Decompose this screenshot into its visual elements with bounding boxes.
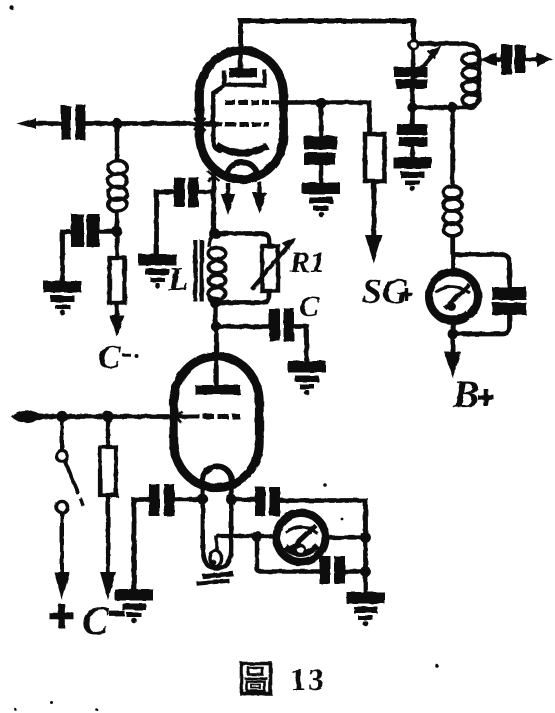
wire: coil L1 to junction — [115, 210, 119, 231]
resistor R1 — [262, 246, 278, 291]
node junction at shunt right — [360, 566, 371, 577]
switch top contact — [56, 450, 67, 461]
svg-text:SG: SG — [362, 271, 408, 311]
wire: cathode of V1 down — [211, 168, 216, 231]
wire: down to ground right — [363, 538, 368, 593]
wire: screen grid out to right — [271, 100, 371, 105]
tube V1 envelope — [200, 50, 284, 179]
lamp inner electrode — [215, 536, 219, 552]
wire + arrow to + — [60, 513, 64, 573]
wire: junction down into V2 — [214, 328, 219, 386]
capacitor: screen bypass — [319, 103, 324, 137]
arrow B+ — [450, 334, 455, 357]
screen grid dashes of V1 — [225, 100, 269, 105]
transformer core bars — [193, 240, 197, 302]
input arrow (antenna) — [17, 118, 37, 129]
ground bottom right — [347, 592, 385, 626]
X mark grid entry V2 — [171, 411, 183, 424]
node junction on screen wire — [316, 98, 327, 109]
svg-text:B: B — [452, 373, 479, 416]
node junction below meter — [448, 329, 459, 340]
filament arrow right of V1 — [257, 182, 261, 196]
caption 圖 13 — [242, 664, 271, 694]
wire: box top to R1 — [215, 234, 270, 248]
cathode arc of V1 — [217, 145, 268, 153]
capacitor: variable trimmer below node — [411, 49, 416, 67]
node junction left of meter2 — [252, 531, 263, 542]
antenna arrow right (out) — [526, 57, 542, 61]
wire: lamp electrode to meter — [217, 534, 254, 538]
coil L2 top right — [477, 50, 481, 101]
filament dome of V2 — [203, 466, 232, 481]
wire: capacitor bottom to junction — [453, 315, 510, 334]
wire + arrow SG+ — [371, 181, 376, 241]
X mark grid entry V1 — [194, 118, 206, 131]
capacitor left of V2 filament — [149, 484, 160, 516]
resistor R2 — [106, 417, 110, 448]
wire: coil L2 bottom to junction row — [414, 100, 479, 108]
tube V2 envelope — [174, 356, 259, 487]
capacitor: meter shunt — [492, 287, 527, 300]
arrow C- below resistor — [110, 316, 125, 338]
wire: meter2 right — [328, 535, 366, 539]
node junction above V2 — [211, 321, 221, 331]
arrow of variable capacitor — [405, 55, 433, 88]
filament dome of V1 — [227, 162, 258, 178]
node junction at R2 — [102, 411, 113, 422]
filament arrow left of V1 — [226, 183, 230, 198]
capacitor: bypass below junction — [410, 107, 415, 124]
specks — [10, 6, 14, 10]
ground below screen bypass — [302, 183, 340, 217]
wire: tube V1 plate to top rail — [238, 19, 416, 48]
ground bottom left — [115, 589, 153, 623]
antenna arrow left (into coil) — [489, 57, 501, 61]
control grid dashes of V2 — [188, 414, 240, 419]
anode plate bar of V2 — [195, 385, 241, 395]
node junction on grid wire — [112, 118, 122, 128]
resistor screen dropping — [365, 134, 385, 181]
wire: cap to right rail — [280, 501, 366, 539]
ground below left capacitor — [44, 281, 82, 315]
node junction transformer bottom — [210, 297, 221, 308]
wire: screen wire corner down to resistor — [367, 101, 372, 136]
coil L1 (antenna coil) — [108, 161, 127, 175]
cathode lead inside V1 — [213, 86, 224, 152]
wire: meter bottom to junction — [451, 322, 455, 334]
capacitor: cathode bypass — [196, 190, 213, 194]
capacitor C — [269, 309, 280, 341]
screen bracket of V1 — [222, 70, 266, 86]
node junction filament left — [197, 494, 208, 505]
wire: node to coil L2 top — [418, 44, 479, 53]
X mark cathode wall crossing — [208, 171, 220, 182]
svg-text:L: L — [167, 261, 189, 298]
wire down to switch — [60, 417, 64, 450]
capacitor: antenna coupling — [501, 45, 512, 75]
wire: junction down to choke — [450, 108, 454, 186]
node junction at switch — [56, 411, 67, 422]
wire: cap to ground left — [134, 500, 150, 591]
node junction transformer top — [209, 228, 220, 239]
node junction right of meter2 — [360, 532, 371, 543]
svg-text:R1: R1 — [289, 246, 325, 279]
ground below bypass cap — [139, 254, 177, 288]
transformer winding — [209, 235, 214, 247]
wire: bypass cap to ground — [157, 192, 176, 255]
lamp/ballast tube U-shape — [203, 500, 231, 569]
anode plate bar of V1 — [238, 48, 243, 69]
wire: C to ground — [294, 327, 307, 362]
wire: capacitor left plate down to ground — [63, 232, 73, 282]
node: open circle junction top right — [409, 40, 418, 49]
wire: down to grid node of V2 — [213, 303, 218, 325]
switch blade — [65, 462, 79, 495]
choke coil — [444, 186, 462, 199]
node junction filament right — [226, 494, 237, 505]
svg-text:C: C — [98, 339, 121, 376]
ground below bypass capacitor — [394, 157, 432, 191]
meter M2 — [277, 513, 326, 562]
input terminal blob — [11, 410, 43, 422]
svg-text:13: 13 — [290, 661, 326, 697]
meter M1 — [429, 272, 478, 321]
wire: input2 to grid of V2 — [30, 414, 188, 419]
wire: choke bottom corner right and down to capacitor — [453, 234, 510, 288]
arrow through R1 — [252, 246, 289, 290]
wire: input to control grid of V1 — [193, 122, 222, 127]
wire: junction down to coil L1 — [115, 124, 119, 161]
wire: capacitor to grid — [86, 121, 197, 126]
svg-text:C: C — [82, 598, 110, 643]
shunt capacitor path below meter2 — [257, 538, 320, 572]
node junction on bottom wire of L2 — [447, 102, 457, 112]
wire: R1 bottom to box bottom — [215, 291, 270, 303]
capacitor right of V2 filament — [231, 497, 255, 501]
wire: junction right to capacitor C — [216, 324, 269, 328]
node junction below trimmer — [407, 102, 417, 112]
node junction below L1 — [112, 226, 123, 237]
wire: choke to meter top — [451, 253, 455, 270]
capacitor: grid leak C to left — [98, 229, 117, 233]
wire: cap right plate to filament node — [175, 497, 201, 501]
switch bottom contact — [56, 501, 67, 512]
lamp base hatch — [197, 574, 234, 584]
ground below C — [288, 361, 326, 395]
filament leads of V2 — [203, 481, 232, 500]
svg-text:C: C — [299, 290, 320, 323]
control grid dashes of V1 — [225, 122, 269, 127]
resistor grid leak below junction — [115, 233, 119, 259]
arrow to C- — [100, 572, 116, 600]
wire: trimmer to junction — [410, 89, 415, 107]
capacitor: grid series input — [61, 106, 71, 140]
label + — [50, 604, 74, 628]
